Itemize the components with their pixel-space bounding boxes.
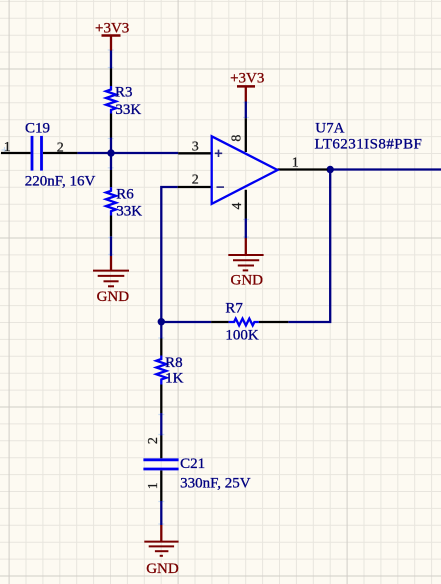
svg-text:C19: C19 bbox=[25, 121, 50, 137]
svg-text:1: 1 bbox=[292, 155, 299, 170]
svg-text:4: 4 bbox=[230, 203, 245, 210]
svg-text:+3V3: +3V3 bbox=[95, 21, 129, 37]
svg-text:100K: 100K bbox=[225, 328, 259, 344]
svg-text:+3V3: +3V3 bbox=[230, 71, 264, 87]
svg-text:2: 2 bbox=[146, 437, 161, 444]
svg-text:GND: GND bbox=[231, 272, 264, 288]
svg-text:GND: GND bbox=[97, 289, 130, 305]
svg-text:1K: 1K bbox=[165, 371, 184, 387]
svg-text:33K: 33K bbox=[116, 204, 142, 220]
svg-text:33K: 33K bbox=[115, 102, 141, 118]
svg-text:R7: R7 bbox=[225, 301, 243, 317]
svg-text:220nF, 16V: 220nF, 16V bbox=[25, 174, 96, 190]
svg-text:1: 1 bbox=[4, 140, 11, 155]
svg-text:2: 2 bbox=[57, 140, 64, 155]
svg-text:GND: GND bbox=[146, 561, 179, 577]
svg-text:330nF, 25V: 330nF, 25V bbox=[180, 476, 251, 492]
svg-text:LT6231IS8#PBF: LT6231IS8#PBF bbox=[315, 137, 423, 153]
svg-text:R3: R3 bbox=[115, 85, 133, 101]
svg-text:3: 3 bbox=[192, 139, 199, 154]
svg-text:C21: C21 bbox=[180, 456, 205, 472]
svg-text:R6: R6 bbox=[116, 187, 134, 203]
svg-text:2: 2 bbox=[192, 172, 199, 187]
svg-text:R8: R8 bbox=[165, 355, 183, 371]
svg-text:1: 1 bbox=[146, 482, 161, 489]
svg-text:U7A: U7A bbox=[315, 121, 344, 137]
svg-text:8: 8 bbox=[229, 135, 244, 142]
